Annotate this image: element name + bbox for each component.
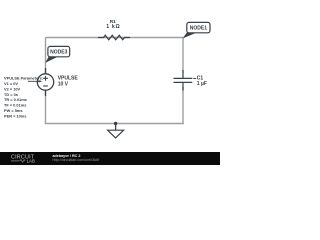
svg-text:1 µF: 1 µF bbox=[197, 81, 207, 87]
node NODE3 bubble bbox=[48, 46, 70, 56]
node NODE1 bubble bbox=[187, 22, 210, 32]
svg-text:PW = 5ms: PW = 5ms bbox=[4, 108, 23, 113]
svg-text:1 kΩ: 1 kΩ bbox=[106, 24, 120, 30]
voltage source V1 (VPULSE) bbox=[37, 68, 53, 96]
svg-text:LAB: LAB bbox=[27, 159, 35, 164]
footer bar bbox=[0, 152, 220, 165]
wire bottom bbox=[45, 123, 184, 125]
node NODE1 flag tail bbox=[183, 32, 197, 38]
junction dot bbox=[114, 122, 117, 125]
CircuitLab logo bbox=[11, 155, 35, 164]
svg-text:http://circuitlab.com/cmh3k6f: http://circuitlab.com/cmh3k6f bbox=[53, 158, 101, 162]
ground GND bbox=[108, 124, 124, 138]
svg-text:TF = 0.01ms: TF = 0.01ms bbox=[4, 103, 26, 108]
svg-text:NODE1: NODE1 bbox=[190, 25, 207, 31]
svg-text:VPULSE Parameters:: VPULSE Parameters: bbox=[4, 76, 43, 81]
svg-text:10 V: 10 V bbox=[58, 81, 69, 87]
annotation arrow to source bbox=[28, 80, 41, 82]
wire top (node1 net) bbox=[46, 37, 184, 39]
svg-text:V2 = 10V: V2 = 10V bbox=[4, 86, 21, 91]
wire right upper vertical bbox=[182, 37, 184, 73]
svg-text:NODE3: NODE3 bbox=[50, 49, 67, 55]
svg-text:TD = 0s: TD = 0s bbox=[4, 92, 18, 97]
wire left lower vertical bbox=[45, 90, 47, 124]
resistor R1 bbox=[98, 35, 130, 40]
svg-text:TR = 0.01ms: TR = 0.01ms bbox=[4, 97, 27, 102]
node NODE3 flag tail bbox=[45, 56, 58, 63]
wire left vertical bbox=[45, 38, 47, 75]
svg-text:PER = 10ms: PER = 10ms bbox=[4, 113, 26, 118]
annotation text VPULSE parameters bbox=[4, 76, 43, 119]
wire right lower vertical bbox=[182, 87, 184, 124]
svg-text:V1 = 0V: V1 = 0V bbox=[4, 81, 18, 86]
capacitor C1 bbox=[174, 70, 197, 91]
